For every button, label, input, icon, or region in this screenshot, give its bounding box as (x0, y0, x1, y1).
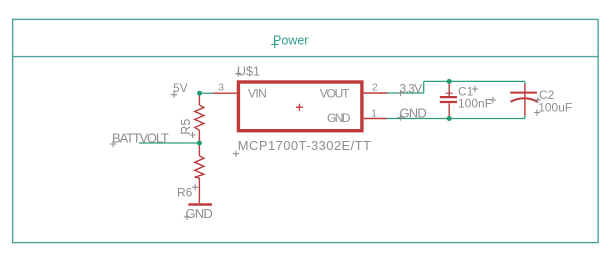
U1 pin VOUT stub (364, 92, 388, 94)
svg-text:BATTVOLT: BATTVOLT (112, 131, 169, 146)
ground label origin cross (184, 214, 190, 220)
svg-text:2: 2 (372, 83, 378, 94)
resistor R6 label origin cross (192, 184, 198, 190)
resistor R6 zigzag (195, 156, 204, 178)
wire C2 bottom to GND rail (524, 115, 526, 119)
wire right vertical to C2 (524, 81, 526, 84)
title origin cross (271, 41, 278, 48)
svg-text:GND: GND (327, 111, 351, 125)
resistor R5 top lead (198, 93, 200, 105)
svg-text:1: 1 (371, 109, 377, 120)
svg-text:100uF: 100uF (538, 100, 572, 114)
junction node C1 bottom (447, 116, 452, 121)
U1 origin cross (296, 104, 303, 111)
svg-text:5V: 5V (173, 81, 188, 95)
wire bottom GND rail (387, 118, 525, 120)
junction node at 5V (197, 91, 202, 96)
op-amp U1 body (voltage regulator box) (238, 82, 362, 131)
C2 value origin cross (534, 109, 540, 115)
capacitor C1 bottom plate (440, 101, 457, 103)
svg-text:Power: Power (273, 33, 308, 47)
ground symbol bar (188, 203, 212, 206)
resistor R5 zigzag (195, 105, 204, 130)
U1 value origin cross (233, 151, 239, 157)
svg-text:VIN: VIN (248, 87, 266, 101)
C1 name origin cross (472, 86, 478, 92)
wire BATTVOLT horizontal (139, 142, 199, 144)
resistor R6 bottom lead (198, 178, 200, 203)
C1 value origin cross (490, 97, 496, 103)
svg-text:MCP1700T-3302E/TT: MCP1700T-3302E/TT (238, 138, 372, 153)
capacitor C1 top plate (440, 96, 457, 98)
capacitor C2 curved plate (511, 98, 538, 102)
supply 5V origin cross (171, 92, 177, 98)
junction node C1 top (447, 79, 452, 84)
svg-text:VOUT: VOUT (320, 87, 350, 101)
net label GND origin cross (397, 114, 403, 120)
title separator line (13, 56, 599, 58)
resistor R5 label origin cross (190, 132, 196, 138)
svg-text:GND: GND (186, 206, 213, 221)
C2 name origin cross (535, 97, 541, 103)
U1 name origin cross (235, 71, 241, 77)
resistor R5 bottom lead (198, 130, 200, 143)
wire jog vertical (423, 81, 425, 93)
svg-text:U$1: U$1 (237, 64, 260, 78)
wire top 3.3V rail (424, 80, 525, 82)
U1 pin GND stub (364, 118, 387, 120)
wire VOUT to jog (388, 92, 424, 94)
svg-text:100nF: 100nF (458, 96, 492, 110)
wire 5V to VIN (200, 92, 214, 94)
capacitor C1 top lead (448, 81, 450, 96)
BATTVOLT origin cross (110, 141, 116, 147)
capacitor C1 bottom lead (448, 103, 450, 118)
junction node at BATTVOLT (197, 141, 202, 146)
resistor R6 top lead (198, 143, 200, 156)
capacitor C2 straight plate (510, 92, 537, 94)
U1 pin VIN stub (213, 92, 237, 94)
capacitor C1 origin cross (446, 90, 453, 97)
svg-text:R5: R5 (179, 119, 193, 135)
capacitor C2 top lead (524, 84, 526, 116)
svg-text:3: 3 (218, 83, 224, 94)
svg-text:GND: GND (400, 106, 427, 121)
svg-text:R6: R6 (177, 185, 193, 199)
net label 3.3V origin cross (397, 90, 403, 96)
